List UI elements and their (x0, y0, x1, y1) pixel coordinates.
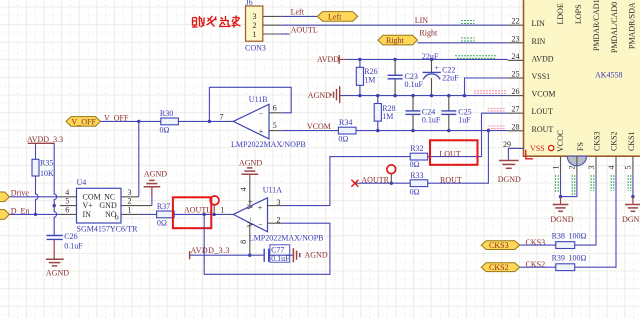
IC pin 22 LIN (508, 17, 545, 29)
svg-text:ROUT: ROUT (532, 125, 554, 134)
svg-text:4: 4 (607, 166, 616, 170)
svg-text:0Ω: 0Ω (157, 219, 167, 228)
svg-text:U11B: U11B (249, 95, 268, 104)
resistor R32 0R (410, 144, 428, 169)
J6 pin 1 stub (263, 33, 280, 35)
svg-text:3: 3 (253, 12, 257, 21)
svg-text:AOUTL: AOUTL (291, 25, 318, 34)
svg-text:22uF: 22uF (442, 73, 459, 82)
wire LOUT from IC pin 27 down-left (428, 113, 508, 156)
svg-text:U11A: U11A (263, 185, 282, 194)
svg-text:0Ω: 0Ω (338, 134, 348, 143)
U4 pin 4 stub (60, 196, 77, 198)
IC pin 25 VSS1 (508, 70, 550, 82)
svg-text:NC: NC (104, 192, 115, 201)
U11B pin 6 stub (269, 112, 283, 114)
svg-text:10K: 10K (40, 169, 54, 178)
wire IC bottom pin5 to DGND (632, 174, 634, 196)
IC pin 28 ROUT (508, 122, 554, 134)
resistor R33 0R (410, 171, 428, 197)
junction AOUTL test point (213, 213, 216, 216)
svg-text:R38: R38 (552, 232, 565, 241)
wire down to C26 (53, 206, 55, 236)
junction on AVDD rail at C23 (393, 58, 396, 61)
svg-text:LOUT: LOUT (532, 107, 553, 116)
svg-text:COM: COM (83, 192, 101, 201)
svg-text:AVDD: AVDD (317, 55, 339, 64)
svg-text:1: 1 (128, 206, 132, 215)
junction R35 / D_En (34, 213, 37, 216)
IC bottom pin 1 (VCOC) (551, 156, 560, 174)
wire ROUT branch from rail down to R33 (428, 131, 489, 184)
port CKS3 (481, 241, 520, 250)
svg-text:AGND: AGND (239, 159, 262, 168)
svg-text:R35: R35 (40, 159, 53, 168)
port Drive (0, 192, 9, 202)
svg-text:0.1uF: 0.1uF (422, 116, 441, 125)
svg-text:AGND: AGND (46, 268, 69, 277)
svg-text:U4: U4 (77, 178, 87, 187)
svg-text:R33: R33 (410, 171, 423, 180)
svg-text:o: o (115, 213, 119, 222)
resistor R39 100R (552, 254, 587, 271)
ground AGND below C26 (46, 239, 69, 277)
junction VCOM rail at C22 (430, 94, 433, 97)
resistor R37 0R (157, 202, 175, 228)
U11A pin 2 stub (268, 222, 283, 224)
pink annotation near pin 28 (488, 126, 506, 129)
svg-text:2: 2 (253, 21, 257, 30)
connector J6 CON3 (245, 0, 266, 53)
svg-text:0.1uF: 0.1uF (64, 241, 83, 250)
svg-text:CKS3: CKS3 (489, 241, 509, 250)
svg-text:AGND: AGND (144, 170, 167, 179)
green rotated annotation at bottom pin4 (611, 175, 614, 191)
svg-text:28: 28 (512, 122, 520, 131)
svg-text:LMP2022MAX/NOPB: LMP2022MAX/NOPB (249, 233, 324, 242)
svg-text:LDOE: LDOE (556, 3, 565, 24)
svg-text:R37: R37 (157, 202, 170, 211)
junction VCOM rail at C25 (447, 94, 450, 97)
port Left (318, 12, 358, 22)
U4 pin 2 stub (121, 205, 152, 207)
resistor R28 1M (374, 96, 395, 131)
svg-text:5: 5 (624, 166, 633, 170)
green annotation near pin 23 (461, 38, 475, 41)
svg-text:CKS2: CKS2 (489, 263, 509, 272)
wire IC bottom pin2 joins pin1 (561, 174, 577, 196)
wire U4 pin1 to R37 (139, 213, 157, 215)
grey semicircle marker at IC bottom pin 2 (567, 156, 586, 166)
svg-text:AGND: AGND (305, 251, 328, 260)
svg-text:22: 22 (512, 17, 520, 26)
wire CKS2 from bottom pin4 down to R39 (575, 174, 616, 267)
svg-text:ROUT: ROUT (440, 175, 462, 184)
test stub above AOUTR junction (390, 173, 392, 183)
svg-text:IN: IN (83, 210, 92, 219)
svg-text:0.1uF: 0.1uF (271, 254, 290, 263)
junction AVDD_3.3 / U4 pin5 (53, 204, 56, 207)
U11B feedback wire loop (209, 87, 291, 121)
wire VCOM/AGND rail to IC pin 26 (340, 95, 508, 97)
AGND sideways symbol on VCOM rail (331, 86, 340, 103)
svg-text:4: 4 (239, 187, 248, 191)
IC pin 27 LOUT (508, 105, 553, 117)
junction AOUTL feedback branch (203, 213, 206, 216)
svg-text:23: 23 (512, 34, 520, 43)
svg-text:LOUT: LOUT (439, 149, 460, 158)
svg-text:Right: Right (386, 36, 405, 45)
wire LOUT from R32 to U11A pin3 branch (283, 157, 411, 206)
capacitor C25 1uF (441, 96, 471, 131)
test stub above AOUTL junction (213, 205, 215, 215)
svg-text:VSS1: VSS1 (532, 72, 551, 81)
ground AGND sideways right of C77 (293, 248, 327, 262)
wire VSS1 branch from IC pin 25 down to rail (465, 78, 508, 96)
svg-text:25: 25 (512, 70, 520, 79)
junction VCOM rail at C23 (393, 94, 396, 97)
svg-text:24: 24 (512, 52, 520, 61)
resistor R38 100R (552, 232, 587, 249)
svg-text:LIN: LIN (415, 16, 429, 25)
wire CKS3 from bottom pin3 down to R38 (575, 174, 596, 245)
wire U4 pin2 up to AGND (151, 189, 153, 206)
svg-text:2: 2 (128, 197, 132, 206)
power port AVDD (317, 55, 346, 64)
wire D_En to U4 pin 6 (9, 213, 59, 215)
ground AGND above U4 pin2 (inverted) (144, 170, 168, 197)
svg-text:3: 3 (587, 166, 596, 170)
svg-text:0Ω: 0Ω (160, 126, 170, 135)
IC bottom pin 2 (FS) (568, 156, 577, 174)
capacitor C24 0.1uF (406, 96, 441, 131)
IC pin 29 VSS (503, 140, 545, 153)
wire VSS pin 29 to DGND (508, 148, 523, 159)
svg-text:1: 1 (220, 206, 224, 215)
svg-text:PMDAR/CAD1: PMDAR/CAD1 (592, 0, 601, 51)
wire R30 to U11B output (178, 120, 233, 122)
op-amp U11A LMP2022 (220, 185, 323, 242)
svg-text:5: 5 (65, 197, 69, 206)
red highlight circle at AOUTR test point (387, 165, 396, 174)
U11A pin 8 (V+) to AVDD_3.3 (239, 222, 250, 255)
svg-text:DGND: DGND (498, 175, 521, 184)
svg-text:SGM4157YC6/TR: SGM4157YC6/TR (77, 224, 139, 233)
wire AVDD_3.3 to U4 V+ (53, 143, 55, 205)
svg-text:0Ω: 0Ω (410, 188, 420, 197)
junction on AVDD rail at R26 (358, 58, 361, 61)
green annotation near pin 24 (455, 56, 497, 59)
junction ROUT rail at R28 (376, 129, 379, 132)
wire VCOM from U11B pin5 to R34 (283, 130, 339, 132)
ground DGND below pin 5 (622, 197, 640, 224)
svg-text:29: 29 (503, 140, 511, 149)
red highlight box AOUTL (173, 197, 211, 228)
svg-text:AGND: AGND (308, 91, 331, 100)
wire stub net AOUTL from J6.1 (280, 33, 290, 35)
analog switch U4 SGM4157 (65, 178, 138, 233)
svg-text:Left: Left (328, 12, 342, 21)
svg-text:DGND: DGND (622, 215, 640, 224)
junction on AVDD rail at C22 (430, 58, 433, 61)
power port AVDD_3.3 bottom (190, 246, 230, 259)
svg-text:VCOM: VCOM (532, 90, 556, 99)
svg-text:+: + (435, 64, 440, 73)
junction AOUTR test point (390, 182, 393, 185)
svg-text:CKS2: CKS2 (610, 131, 619, 151)
red title text 跳线选择 (jumper select) (192, 16, 241, 28)
junction ROUT rail at R33 branch (487, 129, 490, 132)
svg-text:VSS: VSS (530, 144, 545, 153)
svg-text:GND: GND (99, 201, 117, 210)
svg-text:AK4558: AK4558 (595, 71, 623, 80)
capacitor C26 0.1uF (47, 232, 84, 250)
IC bottom pin 3 (CKS3) (587, 156, 596, 174)
svg-text:AOUTL: AOUTL (184, 206, 211, 215)
junction V_OFF wire / U4 pin3 branch (137, 120, 140, 123)
svg-text:3: 3 (128, 188, 132, 197)
svg-text:AVDD_3.3: AVDD_3.3 (27, 135, 63, 144)
wire net LIN from J6.2 to IC pin 22 (280, 24, 508, 26)
U11B pin 5 stub (269, 130, 283, 132)
junction ROUT rail at C25 (447, 129, 450, 132)
capacitor C22 22uF polarized (423, 59, 460, 95)
svg-text:27: 27 (512, 105, 520, 114)
svg-text:V+: V+ (83, 201, 94, 210)
svg-text:AVDD: AVDD (532, 54, 554, 63)
svg-text:LMP2022MAX/NOPB: LMP2022MAX/NOPB (231, 140, 306, 149)
svg-text:PMADR/SDA: PMADR/SDA (628, 2, 637, 49)
IC bottom pin 4 (CKS2) (607, 156, 616, 174)
svg-text:2: 2 (568, 166, 577, 170)
wire R35 down to D_En net (35, 176, 37, 214)
U11A pin 4 (V-) to AGND (239, 174, 250, 206)
green annotation near pin 22 (461, 21, 475, 24)
red corner bracket at IC bottom-left (526, 150, 533, 159)
IC pin 23 RIN (508, 34, 546, 46)
svg-text:1M: 1M (364, 76, 375, 85)
IC bottom pin 5 (CKS1) (624, 156, 633, 174)
IC U? AK4558 body (524, 0, 640, 156)
red highlight circle at AOUTL test point (210, 196, 219, 205)
svg-text:1M: 1M (382, 112, 393, 121)
svg-text:R34: R34 (339, 118, 352, 127)
svg-text:VCOM: VCOM (307, 122, 331, 131)
svg-text:−: − (258, 221, 263, 230)
capacitor C77 0.1uF (264, 245, 293, 263)
svg-text:CKS1: CKS1 (627, 131, 636, 151)
svg-text:0Ω: 0Ω (410, 160, 420, 169)
resistor R26 1M (356, 59, 377, 95)
svg-text:6: 6 (273, 103, 277, 112)
svg-text:Left: Left (291, 7, 305, 16)
green rotated annotation at bottom pin1 (556, 175, 559, 192)
U11A pin 3 stub (268, 205, 283, 207)
junction VCOM rail at VSS1 branch (463, 94, 466, 97)
U4 pin 1 stub (121, 213, 139, 215)
junction VCOM rail at C24 (411, 94, 414, 97)
wire AVDD_3.3 to C77 (190, 254, 265, 256)
svg-text:5: 5 (273, 121, 277, 130)
svg-text:1: 1 (551, 166, 560, 170)
svg-text:DGND: DGND (550, 215, 573, 224)
svg-text:+: + (258, 203, 263, 212)
ground AGND above U11A (239, 159, 262, 175)
port V_OFF (66, 117, 100, 127)
resistor R34 0R (338, 118, 356, 143)
svg-text:VCOC: VCOC (556, 130, 565, 152)
op-amp U11B LMP2022 (220, 95, 306, 149)
wire AOUTL from R37 to U11A output (174, 213, 233, 215)
svg-text:RIN: RIN (532, 37, 546, 46)
svg-text:−: − (259, 110, 264, 119)
wire ROUT rail from R34 to IC pin 28 (356, 130, 508, 132)
resistor R30 0R (160, 109, 179, 134)
svg-text:8: 8 (239, 240, 248, 244)
junction at pin1/pin2 ground node (559, 195, 562, 198)
IC pin 26 VCOM (508, 87, 556, 99)
wire CKS2 port to R39 (520, 266, 556, 268)
svg-text:LOPS: LOPS (574, 4, 583, 24)
svg-text:22uF: 22uF (422, 52, 439, 61)
wire net Left from J6.3 (280, 15, 317, 17)
red highlight box LOUT (430, 140, 478, 165)
U4 pin 6 stub (60, 213, 77, 215)
wire V_OFF to R30 (100, 120, 160, 122)
svg-text:PMDAL/CAD0: PMDAL/CAD0 (610, 2, 619, 53)
no-ERC red cross on AOUTR (351, 180, 358, 187)
wire IC bottom pin1 to DGND (560, 174, 562, 196)
svg-text:26: 26 (512, 87, 520, 96)
green rotated annotation at bottom pin2 (572, 175, 575, 196)
svg-text:100Ω: 100Ω (569, 254, 587, 263)
green rotated annotation at bottom pin5 (628, 175, 631, 191)
svg-text:AVDD_3.3: AVDD_3.3 (191, 246, 230, 255)
power port AVDD_3.3 left (27, 135, 63, 144)
junction VCOM rail at R26 (358, 94, 361, 97)
green rotated annotation at bottom pin3 (591, 175, 594, 191)
wire AVDD_3.3 to R35 (35, 143, 37, 159)
pink annotation near pin 27 (488, 108, 506, 111)
wire CKS3 port to R38 (520, 244, 556, 246)
svg-text:R30: R30 (160, 109, 173, 118)
wire U4 pin3 up to V_OFF net (138, 121, 140, 196)
svg-text:0.1uF: 0.1uF (405, 80, 424, 89)
U11A feedback wire to AOUTL (204, 214, 330, 274)
U4 pin 3 stub (121, 196, 139, 198)
svg-text:7: 7 (220, 113, 224, 122)
svg-text:R32: R32 (410, 144, 423, 153)
svg-text:4: 4 (65, 188, 69, 197)
svg-text:CON3: CON3 (245, 44, 266, 53)
wire AVDD rail to IC pin 24 (346, 58, 508, 60)
IC pin 24 AVDD (508, 52, 554, 64)
wire net RIN from Right port to IC pin 23 (418, 42, 508, 44)
pink annotation near pin 26 (474, 91, 506, 94)
svg-text:LIN: LIN (532, 19, 546, 28)
ground DGND at pin 29 (499, 161, 519, 169)
ERC marker red circle at VSS pin (549, 145, 554, 150)
resistor R35 10K (32, 159, 54, 178)
svg-text:100Ω: 100Ω (569, 232, 587, 241)
svg-text:C26: C26 (64, 232, 77, 241)
junction VCOM rail at R28 (376, 94, 379, 97)
svg-text:R39: R39 (552, 254, 565, 263)
svg-text:V_OFF: V_OFF (72, 117, 97, 126)
svg-text:+: + (259, 127, 264, 136)
svg-text:FS: FS (576, 142, 585, 151)
ground DGND below pins 1-2 (550, 197, 573, 224)
junction at pin5 ground node (631, 195, 634, 198)
junction U11A pin8 / AVDD_3.3 (248, 254, 251, 257)
J6 pin 3 stub (263, 15, 280, 17)
svg-text:Right: Right (419, 29, 438, 38)
wire Drive to U4 pin 4 (9, 196, 59, 198)
wire AOUTR to R33 (355, 182, 410, 184)
J6 pin 2 stub (263, 24, 280, 26)
junction U11B feedback node (208, 120, 211, 123)
port Right (378, 35, 418, 45)
port CKS2 (481, 263, 520, 272)
svg-text:CKS3: CKS3 (593, 131, 602, 151)
capacitor C23 0.1uF (388, 59, 424, 95)
svg-text:6: 6 (65, 206, 69, 215)
junction ROUT rail at C24 (411, 129, 414, 132)
svg-text:1uF: 1uF (458, 116, 471, 125)
U4 pin 5 stub (60, 205, 77, 207)
svg-text:AOUTR: AOUTR (361, 175, 389, 184)
svg-text:1: 1 (253, 30, 257, 39)
port D_En (0, 210, 9, 220)
